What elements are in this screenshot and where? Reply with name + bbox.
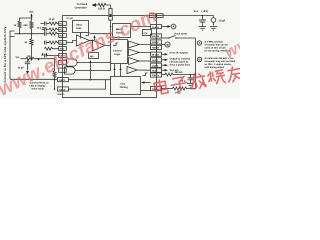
- svg-text:Timing: Timing: [120, 86, 129, 89]
- junction dot bottom rail 1: [54, 79, 56, 81]
- wire P20 out: [162, 64, 165, 66]
- pin box left P6: [59, 34, 67, 38]
- capacitor C11 electrolytic: [211, 16, 216, 26]
- resistor R9 vertical: [53, 71, 56, 78]
- small box del: [89, 53, 99, 59]
- pin box right P21: [151, 68, 162, 72]
- op-amp U1A: [77, 35, 90, 46]
- svg-text:Gate: Gate: [76, 27, 82, 30]
- junction dot bottom rail 2: [54, 88, 56, 90]
- wire P21 out: [162, 69, 165, 71]
- capacitor C10 decoupling: [199, 16, 206, 27]
- svg-text:560: 560: [24, 24, 29, 27]
- switch SW1: [168, 36, 176, 39]
- watermark chinese characters: [154, 66, 244, 96]
- pin P12: [59, 61, 67, 65]
- pin box right P15: [151, 34, 162, 38]
- wire R9 to bottom rail: [54, 78, 56, 90]
- op-amp U1B: [93, 40, 105, 51]
- svg-text:www.elecfans.com: www.elecfans.com: [0, 5, 161, 99]
- resistor R8: [26, 57, 55, 60]
- wire P16 to B: [162, 44, 165, 46]
- resistor R11: [173, 87, 196, 90]
- junction dot clock bus: [110, 26, 112, 28]
- waveform glyph 1: [86, 33, 91, 36]
- pin box right P19: [151, 58, 162, 62]
- svg-text:A: A: [199, 41, 201, 45]
- wire input rail 2: [21, 58, 27, 60]
- wire rail2 to resistor R9: [54, 59, 56, 72]
- svg-text:KEY IN: KEY IN: [152, 35, 160, 38]
- capacitor C4: [45, 54, 59, 58]
- svg-text:Push mode: Push mode: [175, 32, 189, 35]
- buffer U2: [129, 41, 140, 48]
- watermark char shao: [207, 70, 225, 86]
- caption text bottom left: [30, 82, 49, 91]
- block bottom OSC: [111, 77, 141, 95]
- buffer U4: [129, 58, 140, 65]
- pin box right P20: [151, 63, 162, 67]
- wire switch to node: [176, 37, 196, 39]
- svg-text:drive a pulse line): drive a pulse line): [170, 64, 190, 67]
- svg-text:drive mode: drive mode: [32, 88, 45, 91]
- wire bottom rail left: [10, 78, 58, 80]
- ground resonator: [187, 84, 194, 88]
- svg-text:Circuit is for a 525-line syst: Circuit is for a 525-line system only: [3, 26, 7, 82]
- arrow P20: [165, 64, 169, 66]
- wire P23 to resonator: [162, 88, 173, 90]
- capacitor C6 resonator: [188, 75, 194, 84]
- svg-text:560 kΩ: 560 kΩ: [175, 71, 183, 74]
- capacitor C3: [45, 41, 50, 45]
- wire U2 in: [128, 44, 129, 46]
- junction dot resonator: [190, 74, 192, 76]
- wire P12 to G1: [65, 62, 67, 64]
- junction dot R13 rail2: [31, 58, 33, 60]
- pin box left P5: [59, 28, 67, 32]
- buffer U5: [127, 67, 137, 74]
- wire P11 to center: [69, 80, 106, 89]
- wire branch to R1: [20, 18, 32, 22]
- pin box right P18: [151, 52, 162, 56]
- junction dot Vcc rail: [202, 15, 204, 17]
- svg-text:1k: 1k: [14, 24, 17, 27]
- wire U3 in: [128, 52, 129, 54]
- pin box left P9: [59, 54, 67, 58]
- capacitor C7: [42, 28, 49, 32]
- wire P10 to center: [69, 79, 111, 81]
- junction dot resonator node: [195, 74, 197, 76]
- resistor R2: [30, 21, 33, 29]
- watermark char zi: [170, 76, 188, 92]
- waveform glyph 2: [113, 43, 118, 46]
- resistor R12: [49, 28, 59, 31]
- arrow P14: [168, 25, 172, 27]
- block Counter: [113, 24, 131, 38]
- resistor R5: [49, 32, 59, 35]
- svg-text:with timing adjust: with timing adjust: [205, 66, 225, 69]
- arrow up on bus: [89, 60, 91, 63]
- svg-text:Vcc: Vcc: [29, 11, 34, 14]
- svg-text:10 µF: 10 µF: [49, 18, 56, 21]
- junction dot rail2: [38, 58, 40, 60]
- wire bottom block right: [141, 90, 151, 92]
- pin box right P22: [151, 73, 162, 77]
- svg-text:Generator: Generator: [75, 6, 87, 9]
- pin box left P4: [59, 22, 67, 26]
- svg-text:RESET: RESET: [152, 47, 160, 50]
- waveform glyph 3: [143, 73, 148, 76]
- arrow into bottom block 2: [119, 67, 121, 70]
- wire P18 out: [162, 53, 165, 55]
- wire from R3 down to pin: [110, 5, 112, 9]
- svg-text:Logic: Logic: [114, 53, 121, 56]
- wire Vcc rail top right: [157, 15, 214, 17]
- svg-text:LED 1: LED 1: [152, 59, 159, 62]
- svg-text:MODE: MODE: [152, 41, 159, 44]
- svg-text:2k: 2k: [25, 41, 28, 44]
- pin box top P2: [150, 14, 156, 18]
- block Control Logic label: [113, 50, 122, 57]
- wire U4 in: [128, 60, 129, 62]
- label To Clock Generator: [75, 3, 88, 9]
- wire P22 to resonator: [162, 74, 166, 76]
- svg-text:A 4-MHz ceramic: A 4-MHz ceramic: [205, 41, 224, 44]
- wire amp bus: [94, 38, 96, 40]
- svg-text:0.1 µF: 0.1 µF: [67, 17, 74, 20]
- pin box left P7: [59, 41, 67, 45]
- node A circle: [171, 24, 176, 29]
- pin box left P8: [59, 47, 67, 51]
- watermark char you: [226, 66, 243, 83]
- arrow into bottom block: [141, 81, 145, 83]
- wire U1A to U1B: [90, 41, 93, 44]
- pin P13: [59, 68, 67, 72]
- wire sync gate down: [80, 33, 82, 39]
- note A circle: [197, 41, 201, 45]
- svg-text:OSC1: OSC1: [59, 79, 66, 82]
- node B circle: [165, 42, 170, 47]
- arrow to clock generator: [92, 3, 97, 6]
- arrow P19: [165, 59, 169, 61]
- resistor R13 vertical: [31, 34, 33, 39]
- svg-text:Vin: Vin: [16, 56, 20, 59]
- arrow P18: [165, 53, 169, 55]
- wire G2 output: [75, 64, 110, 71]
- wire P15 to switch: [162, 37, 169, 39]
- svg-text:LED 2: LED 2: [152, 64, 159, 67]
- pin box right P23: [151, 87, 162, 91]
- block bottom label: [120, 83, 129, 90]
- wire R1 to input rail: [19, 28, 21, 34]
- up arrows into gates: [41, 53, 43, 56]
- arrow into bottom block 1: [113, 67, 115, 70]
- wire arrow 2: [120, 64, 122, 77]
- junction dot Vcc divider: [31, 17, 33, 19]
- connector J1 video input: [10, 31, 15, 37]
- resistor R10: [165, 73, 196, 76]
- junction dot bus 1: [90, 70, 92, 72]
- junction dot sync bus: [110, 33, 112, 35]
- wire into P8: [45, 47, 59, 50]
- wire sync bus: [91, 33, 111, 35]
- note A text: [205, 41, 231, 53]
- block label: [76, 24, 83, 31]
- wire into U1A: [66, 41, 76, 43]
- svg-text:Cnt: Cnt: [144, 32, 148, 35]
- capacitor C2: [41, 22, 50, 26]
- and-gate G1: [67, 59, 78, 66]
- label outputs 3 lines: [170, 58, 191, 67]
- ground for C11: [210, 27, 217, 31]
- pin box right P14: [151, 25, 162, 29]
- Vcc arrow left: [30, 14, 32, 17]
- ground for C10: [199, 27, 206, 31]
- block Sync Gate: [73, 21, 89, 33]
- svg-text:B: B: [199, 58, 201, 62]
- svg-text:IR OUT: IR OUT: [152, 53, 160, 56]
- wire U2 out: [139, 42, 151, 45]
- svg-text:Vcc: Vcc: [194, 10, 199, 13]
- pin box bottom left P11: [58, 87, 69, 91]
- pin box right P16: [151, 40, 162, 44]
- wire Vcc stub: [31, 16, 33, 22]
- IC U1 outline: [63, 16, 157, 98]
- arrow up amp bus: [93, 35, 95, 38]
- wire pin P1 into IC: [110, 20, 112, 39]
- pin box bottom left P10: [58, 78, 69, 82]
- svg-text:220 Ω: 220 Ω: [98, 7, 105, 10]
- pin box top P3: [157, 14, 163, 18]
- junction dot amp: [90, 40, 92, 42]
- arrow down at rail2: [37, 60, 39, 61]
- wire P13 to G2: [64, 70, 66, 72]
- note B circle: [197, 57, 201, 61]
- block Counter label: [116, 28, 124, 35]
- vertical bus center: [90, 63, 92, 80]
- resistor R1: [18, 21, 21, 28]
- resistor R6: [49, 22, 59, 25]
- wire J1 shield down: [9, 37, 11, 80]
- svg-text:OSC2: OSC2: [59, 88, 66, 91]
- pin box top P1: [109, 17, 113, 21]
- wire J1 to rail: [15, 33, 45, 35]
- svg-text:OSC A: OSC A: [152, 74, 159, 77]
- buffer U3: [129, 49, 140, 56]
- wire R13 to rail2: [31, 45, 33, 58]
- block Control Logic: [111, 40, 128, 64]
- svg-text:Xtal in: Xtal in: [58, 93, 65, 96]
- wire U1B output: [105, 45, 111, 47]
- junction dot bus 2: [90, 79, 92, 81]
- junction dot at R1 bottom: [19, 33, 20, 34]
- up arrow 2: [45, 53, 47, 56]
- note B text: [205, 57, 236, 69]
- svg-text:as 455 ÷ 4 output clocks,: as 455 ÷ 4 output clocks,: [205, 63, 232, 66]
- wire P19 out: [162, 59, 165, 61]
- junction dot rail2 b: [54, 58, 56, 60]
- resistor R3 220 ohm: [98, 3, 111, 6]
- watermark char fa: [189, 72, 206, 89]
- capacitor C1 input coupling: [45, 32, 50, 36]
- wire to clock arrow: [96, 4, 99, 6]
- wire into bottom block: [145, 82, 151, 84]
- wire R4 to pin: [110, 15, 112, 17]
- wire counter to right pins: [131, 26, 151, 28]
- wire R2 down: [31, 29, 33, 34]
- wire P14 out: [162, 26, 168, 28]
- resistor R4 box style: [109, 9, 112, 15]
- wire U3 out: [139, 53, 151, 55]
- and-gate G2: [65, 67, 76, 74]
- junction dot input rail: [31, 33, 33, 35]
- svg-text:(+5V): (+5V): [202, 10, 209, 13]
- small internal box: [143, 30, 152, 36]
- svg-text:Drive IR outputs: Drive IR outputs: [170, 52, 189, 55]
- pin box right P17: [151, 45, 162, 49]
- wire G1 output: [77, 62, 110, 64]
- ground arrow C5: [26, 71, 29, 75]
- wire node down to resonator: [195, 38, 197, 89]
- svg-text:TEST: TEST: [152, 69, 158, 72]
- resistor R7: [49, 41, 59, 44]
- wire U4 out: [139, 60, 151, 62]
- wire arrow 1: [114, 64, 116, 77]
- wire U5 out: [137, 69, 151, 71]
- arrow P21: [165, 69, 169, 71]
- watermark char dian: [154, 79, 169, 95]
- svg-text:10 µF: 10 µF: [219, 19, 226, 22]
- capacitor C5 to ground: [25, 59, 30, 71]
- node Vcc label: [194, 10, 209, 13]
